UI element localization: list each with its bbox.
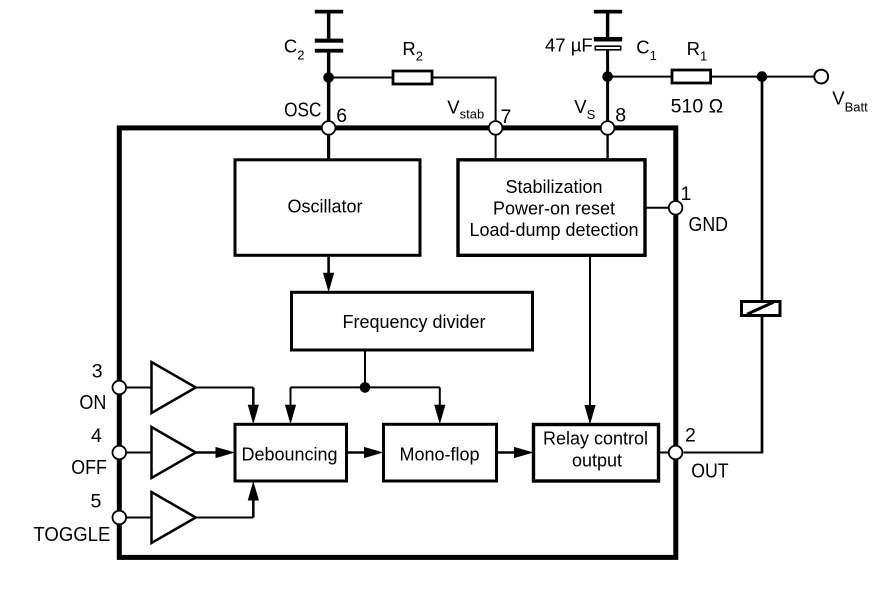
svg-text:5: 5 <box>91 491 102 513</box>
wire R2 to pin 7 <box>432 78 496 125</box>
svg-text:Relay control: Relay control <box>543 429 648 449</box>
block Frequency divider <box>292 292 533 350</box>
buffer A2 (OFF input) <box>152 427 196 478</box>
pin 7 Vstab <box>489 121 503 135</box>
svg-text:GND: GND <box>689 213 729 236</box>
pin 6 OSC <box>322 121 336 135</box>
svg-text:6: 6 <box>336 105 347 127</box>
svg-text:R2: R2 <box>402 38 423 63</box>
svg-text:Stabilization: Stabilization <box>505 177 602 197</box>
wire Stabilization to Relay control output (arrow) <box>584 255 595 424</box>
buffer A3 (TOGGLE input) <box>152 492 196 543</box>
capacitor C1 (electrolytic) <box>594 10 622 50</box>
svg-text:C1: C1 <box>636 36 657 63</box>
wire Debouncing to Mono-flop (arrow) <box>347 447 384 458</box>
pin 5 TOGGLE <box>113 511 127 525</box>
pin 2 OUT <box>669 446 683 460</box>
node junction at C1 / R1 <box>602 71 613 82</box>
wire pin 3 to buffer A1 <box>123 387 152 389</box>
wire pin 6 to Oscillator <box>327 128 330 160</box>
node junction at R1 / relay <box>757 71 768 82</box>
svg-text:Load-dump detection: Load-dump detection <box>469 220 638 240</box>
wire pin 8 to Stabilization <box>606 128 608 160</box>
block Oscillator <box>235 160 420 256</box>
svg-text:510 Ω: 510 Ω <box>671 97 724 118</box>
svg-text:Mono-flop: Mono-flop <box>399 445 479 465</box>
svg-text:ON: ON <box>79 391 106 414</box>
wire pin 4 to buffer A2 <box>123 452 152 454</box>
wire R1 to battery node <box>711 76 762 78</box>
resistor R1 <box>672 70 711 83</box>
block Mono-flop <box>384 424 497 481</box>
pin 8 VS <box>601 121 615 135</box>
svg-text:OUT: OUT <box>691 460 729 483</box>
pin 1 GND <box>669 201 683 215</box>
svg-text:Oscillator: Oscillator <box>287 197 362 217</box>
wire node down to relay coil <box>761 77 764 302</box>
svg-text:OSC: OSC <box>284 99 321 122</box>
svg-text:OFF: OFF <box>71 456 107 479</box>
wire pin 5 to buffer A3 <box>123 517 152 519</box>
svg-text:7: 7 <box>501 106 512 128</box>
wire Mono-flop to Relay control output (arrow) <box>497 447 534 458</box>
block Stabilization / Power-on reset / Load-dump detection <box>458 160 645 256</box>
svg-text:47 µF: 47 µF <box>545 35 593 56</box>
wire relay to pin 2 <box>761 316 764 453</box>
wire branch to Debouncing (arrow) <box>285 387 296 424</box>
wire buffer A2 to Debouncing left (arrow) <box>196 447 235 458</box>
svg-text:VS: VS <box>574 96 595 122</box>
svg-text:Debouncing: Debouncing <box>241 445 337 465</box>
wire Frequency divider to junction <box>364 350 366 387</box>
wire buffer A1 to Debouncing top (arrow) <box>196 388 259 425</box>
wire Stabilization to pin 1 <box>645 207 670 209</box>
svg-text:3: 3 <box>92 361 103 383</box>
svg-text:Power-on reset: Power-on reset <box>493 199 615 219</box>
svg-text:Frequency divider: Frequency divider <box>342 312 485 332</box>
wire pin 7 to Stabilization <box>495 128 497 160</box>
svg-text:R1: R1 <box>687 38 708 64</box>
pin 3 ON <box>113 381 127 395</box>
wire junction to R1 <box>608 76 673 78</box>
svg-text:8: 8 <box>615 105 626 127</box>
terminal VBatt <box>814 70 828 84</box>
svg-text:Vstab: Vstab <box>447 96 484 121</box>
wire Relay control output to pin 2 <box>659 452 671 454</box>
resistor R2 <box>393 71 432 84</box>
svg-text:TOGGLE: TOGGLE <box>33 523 110 546</box>
svg-text:2: 2 <box>685 425 696 447</box>
svg-text:1: 1 <box>681 183 692 205</box>
wire Oscillator to Frequency divider (arrow) <box>323 255 334 292</box>
svg-text:VBatt: VBatt <box>832 88 868 115</box>
node junction below Frequency divider <box>360 382 371 393</box>
IC outline U1 <box>119 128 676 558</box>
wire C1 to pin 8 <box>606 51 609 123</box>
svg-text:C2: C2 <box>284 36 305 63</box>
wire node to VBatt terminal <box>762 76 814 78</box>
wire C2 to pin 6 <box>327 53 331 124</box>
wire buffer A3 to Debouncing bottom (arrow) <box>196 481 259 518</box>
svg-text:output: output <box>572 450 622 470</box>
wire junction to R2 <box>329 77 394 79</box>
block Relay control output <box>534 425 659 482</box>
pin 4 OFF <box>113 446 127 460</box>
relay K1 coil <box>742 302 781 316</box>
buffer A1 (ON input) <box>152 362 196 413</box>
block Debouncing <box>235 424 347 481</box>
node junction at C2 / R2 <box>323 72 334 83</box>
wire junction branch horizontal <box>291 386 440 388</box>
wire branch to Mono-flop (arrow) <box>434 387 445 424</box>
capacitor C2 <box>315 10 343 53</box>
svg-text:4: 4 <box>91 425 102 447</box>
